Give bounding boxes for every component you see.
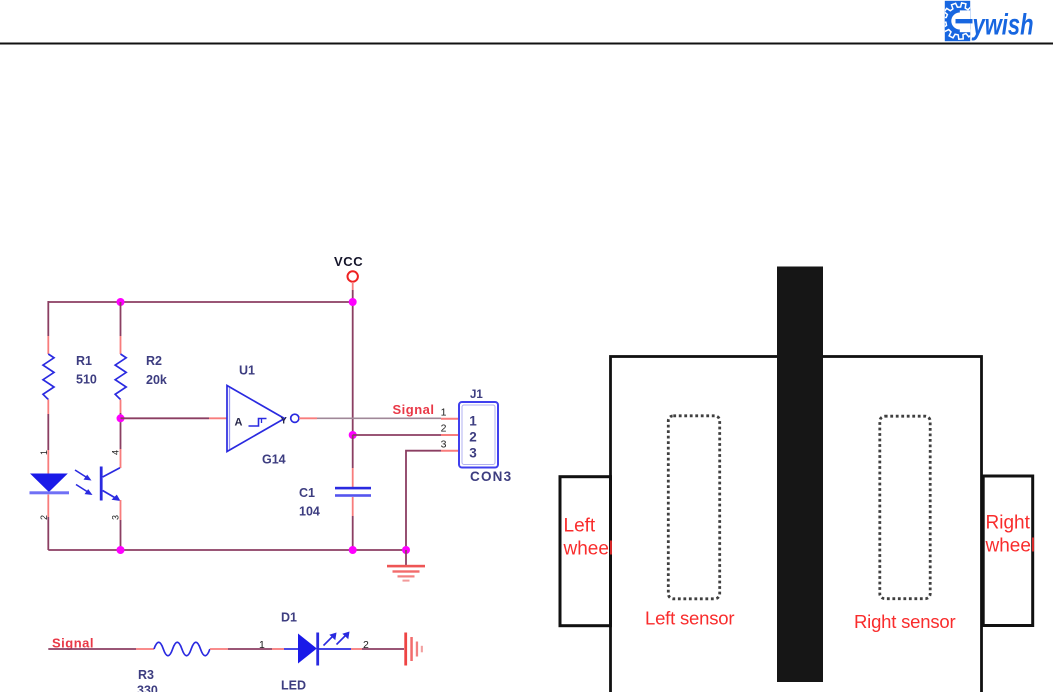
svg-text:2: 2 — [469, 430, 477, 445]
pin stub R3 right — [210, 648, 228, 650]
svg-text:ywish: ywish — [971, 9, 1033, 42]
pin stub photodiode bottom (pin 2) — [47, 495, 49, 518]
op-amp U1 Schmitt buffer — [227, 386, 299, 452]
svg-text:wheel: wheel — [985, 536, 1036, 557]
svg-text:R2: R2 — [146, 354, 162, 368]
svg-text:C1: C1 — [299, 486, 315, 500]
wire C1 to bottom rail — [352, 516, 354, 550]
junction node A — [117, 414, 125, 422]
svg-text:510: 510 — [76, 373, 97, 387]
svg-text:20k: 20k — [146, 373, 167, 387]
pin stub R3 left — [136, 648, 154, 650]
wire node A to U1 input — [121, 417, 210, 419]
svg-text:1: 1 — [259, 639, 265, 651]
photodiode of optocoupler — [30, 474, 68, 493]
wire VCC column below pin2 node — [352, 435, 354, 468]
svg-text:VCC: VCC — [334, 254, 363, 269]
pin stub C1 top — [352, 468, 354, 487]
svg-text:CON3: CON3 — [470, 469, 512, 484]
wire R2 column upper — [120, 302, 122, 336]
svg-text:1: 1 — [469, 414, 477, 429]
svg-text:1: 1 — [39, 450, 49, 455]
pin stub R2 top — [120, 336, 122, 354]
right wheel — [983, 476, 1032, 626]
junction bottom rail / C1 — [349, 546, 357, 554]
logo Eywish gear mark — [942, 1, 978, 41]
wire left rail lower — [47, 517, 49, 550]
pin stub phototransistor emitter (pin 3) — [120, 500, 122, 520]
wire to J1 pin2 — [353, 434, 441, 436]
wire to J1 pin3 elbow — [406, 451, 441, 550]
connector J1 CON3 — [459, 402, 498, 468]
junction top rail / VCC — [349, 298, 357, 306]
junction top rail / R2 — [117, 298, 125, 306]
VCC power port circle — [348, 271, 358, 281]
svg-text:4: 4 — [111, 450, 121, 455]
svg-text:A: A — [235, 417, 243, 429]
black line to follow — [777, 267, 823, 683]
wire signal to R3 — [48, 648, 136, 650]
junction bottom rail / opto — [117, 546, 125, 554]
svg-text:3: 3 — [111, 515, 121, 520]
power ground (rotated) — [404, 633, 423, 666]
ground — [387, 565, 425, 582]
svg-text:LED: LED — [281, 679, 306, 692]
phototransistor of optocoupler — [75, 467, 121, 502]
pin stub J1 pin3 — [441, 450, 459, 452]
svg-text:104: 104 — [299, 505, 320, 519]
svg-text:Right: Right — [986, 513, 1031, 534]
wire D1 to ground — [362, 648, 404, 650]
svg-text:2: 2 — [441, 423, 447, 435]
junction VCC column / pin2 wire — [349, 431, 357, 439]
svg-text:Left sensor: Left sensor — [645, 608, 734, 629]
svg-text:wheel: wheel — [563, 539, 614, 560]
svg-text:G14: G14 — [262, 453, 286, 467]
pin stub U1 input — [209, 417, 227, 419]
svg-text:R3: R3 — [138, 668, 154, 682]
wire ground stub — [405, 550, 407, 566]
capacitor C1 — [335, 487, 371, 490]
svg-text:Signal: Signal — [393, 402, 435, 417]
pin stub R1 bottom — [47, 400, 49, 415]
left sensor dashed box — [668, 416, 719, 599]
junction bottom rail / ground — [402, 546, 410, 554]
svg-text:1: 1 — [441, 407, 447, 419]
svg-text:Y: Y — [281, 416, 288, 427]
svg-text:U1: U1 — [239, 364, 255, 378]
wire R3 to D1 — [228, 648, 272, 650]
pin stub D1 anode (pin 1) — [272, 648, 284, 650]
svg-text:3: 3 — [469, 446, 477, 461]
wire VCC vertical upper — [352, 290, 354, 435]
left wheel — [560, 477, 611, 626]
svg-text:J1: J1 — [470, 389, 483, 401]
wire VCC stub — [352, 282, 354, 290]
wire left rail upper — [47, 301, 49, 336]
svg-text:Left: Left — [564, 516, 596, 537]
pin stub phototransistor collector (pin 4) — [120, 449, 122, 468]
pin stub C1 bottom — [352, 497, 354, 516]
svg-text:3: 3 — [441, 439, 447, 451]
pin stub D1 cathode (pin 2) — [351, 648, 362, 650]
right sensor dashed box — [880, 416, 930, 599]
pin stub R2 bottom — [120, 400, 122, 414]
pin stub J1 pin1 — [441, 418, 459, 420]
wire left rail middle — [47, 414, 49, 450]
pin stub D photodiode top (pin 1) — [47, 450, 49, 474]
pin stub U1 output — [299, 417, 317, 419]
pin stub J1 pin2 — [441, 434, 459, 436]
svg-text:D1: D1 — [281, 611, 297, 625]
svg-text:330: 330 — [137, 684, 158, 692]
wire emitter to bottom rail — [120, 520, 122, 550]
pin stub R1 top — [47, 336, 49, 354]
wire Signal net U1 to J1 — [317, 417, 441, 419]
resistor R1 — [43, 354, 54, 400]
header rule — [0, 43, 1053, 45]
svg-text:R1: R1 — [76, 354, 92, 368]
resistor R2 — [115, 354, 126, 400]
wire top rail — [48, 301, 352, 303]
wire bottom rail — [48, 549, 406, 551]
svg-text:Right sensor: Right sensor — [854, 611, 955, 632]
LED D1 — [284, 632, 351, 666]
resistor R3 — [154, 642, 210, 656]
wire R2 to node A — [120, 413, 122, 449]
car body — [611, 357, 982, 692]
